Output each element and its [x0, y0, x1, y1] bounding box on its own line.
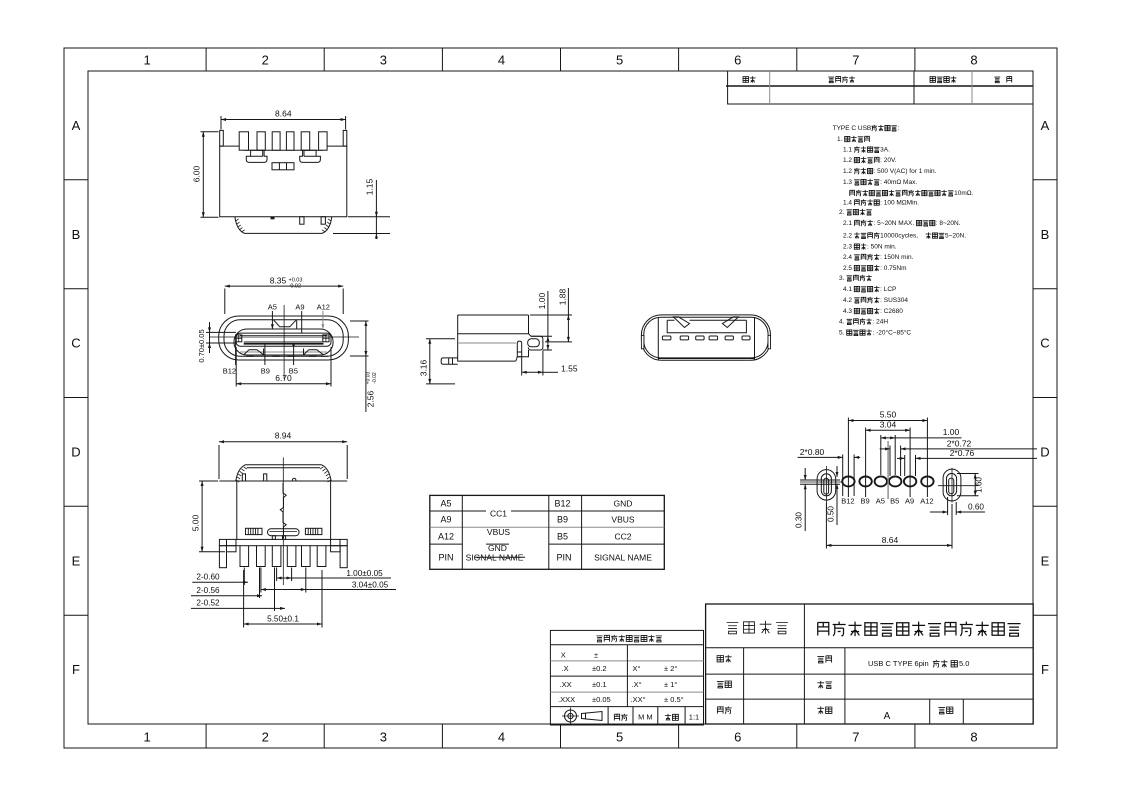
svg-text:E: E [1041, 553, 1050, 568]
units cell 单位 [614, 714, 619, 720]
svg-text:3: 3 [380, 53, 387, 68]
view3 mount tab with slot [516, 334, 543, 361]
svg-text:5.0: 5.0 [959, 659, 969, 668]
svg-text:5: 5 [616, 730, 623, 745]
svg-text:3A.: 3A. [880, 147, 890, 154]
svg-text:.X°: .X° [632, 680, 642, 689]
svg-text:3.16: 3.16 [419, 359, 429, 376]
svg-text:CC2: CC2 [614, 532, 631, 542]
svg-text:10mΩ.: 10mΩ. [954, 190, 974, 197]
view1 top tabs [239, 132, 248, 150]
svg-text:B9: B9 [261, 367, 270, 376]
svg-text:: 24H: : 24H [873, 319, 889, 326]
svg-text:4.: 4. [839, 319, 845, 326]
view2 left clip [236, 335, 242, 342]
pin table grid [430, 495, 665, 569]
view2 top notch [274, 320, 297, 329]
dimension 1.15 view1 [348, 216, 390, 218]
svg-text:3.: 3. [839, 275, 845, 282]
svg-text:SIGNAL NAME: SIGNAL NAME [594, 553, 652, 563]
outer border frame [64, 48, 1057, 748]
svg-text:±0.1: ±0.1 [592, 680, 607, 689]
svg-text:±0.05: ±0.05 [592, 695, 611, 704]
dimension 5.50±0.1 view4 [243, 570, 245, 628]
view6 center axis [887, 441, 889, 499]
inner border frame [88, 71, 1033, 724]
svg-text:A12: A12 [317, 303, 330, 312]
svg-text:±: ± [594, 651, 598, 660]
svg-text:±0.2: ±0.2 [592, 664, 607, 673]
svg-text:3: 3 [380, 730, 387, 745]
svg-text::: : [898, 125, 900, 132]
svg-text:VBUS: VBUS [487, 527, 510, 537]
svg-text:7: 7 [852, 53, 859, 68]
svg-text:4.3: 4.3 [843, 308, 852, 315]
dimension 5.50 view6 [847, 418, 849, 498]
svg-text:D: D [71, 444, 80, 459]
svg-text:A9: A9 [295, 303, 304, 312]
view1 boot corner hatching [236, 219, 332, 232]
title block grid [706, 604, 1034, 724]
dimension 3.04±0.05 view4 [260, 568, 262, 593]
view2 tongue [236, 333, 331, 346]
dimension 1.55 view3 [521, 357, 523, 376]
label 版本 [817, 706, 824, 714]
svg-text:2.5: 2.5 [843, 265, 852, 272]
svg-text:CC1: CC1 [490, 508, 507, 518]
dimension 6.70 view2 [235, 347, 237, 387]
view1 right latch [300, 150, 321, 162]
svg-text:1.4: 1.4 [843, 200, 852, 207]
zone ticks top/bottom [206, 48, 915, 748]
svg-text:1.1: 1.1 [843, 147, 852, 154]
svg-text:: -20°C~85°C: : -20°C~85°C [873, 329, 912, 337]
svg-text:B: B [72, 227, 81, 242]
label 审核 [717, 681, 724, 687]
svg-text:4: 4 [498, 730, 505, 745]
svg-text:4: 4 [498, 53, 505, 68]
view4 dome corner hatching [236, 467, 331, 482]
svg-text:: 0.75Nm: : 0.75Nm [880, 265, 906, 272]
view5 contact slots [662, 336, 750, 340]
svg-text:0.60: 0.60 [968, 503, 984, 512]
svg-text:5.50: 5.50 [880, 409, 897, 419]
svg-text:B12: B12 [223, 367, 236, 376]
svg-text:2: 2 [262, 730, 269, 745]
view5 rear outer stadium [641, 315, 770, 360]
svg-text:1:1: 1:1 [689, 713, 699, 722]
view1 boot legs [300, 217, 304, 225]
view2 tongue inner line [240, 335, 327, 337]
dimension 2*0.72 view6 [889, 446, 891, 477]
label 图号 [817, 681, 824, 689]
svg-text:TYPE C USB: TYPE C USB [833, 125, 872, 132]
company name 广东中连精密工业有限公司 [818, 622, 829, 635]
svg-text:: 100 MΩMin.: : 100 MΩMin. [880, 200, 919, 207]
revision table grid [726, 71, 1033, 104]
dimension 0.70 view2 [206, 331, 236, 333]
view3 side view body [458, 315, 529, 361]
svg-text:: 500 V(AC) for 1 min.: : 500 V(AC) for 1 min. [874, 168, 937, 175]
view4 base plate [219, 539, 347, 545]
view6 left pad centerlines [800, 481, 843, 483]
svg-text:4.2: 4.2 [843, 297, 852, 304]
svg-text:D: D [1040, 444, 1049, 459]
svg-text:.XX: .XX [560, 680, 572, 689]
svg-text:: 8~20N.: : 8~20N. [936, 220, 961, 227]
svg-text:1.00: 1.00 [943, 427, 960, 437]
svg-text:2*0.80: 2*0.80 [800, 447, 825, 457]
svg-text:8.64: 8.64 [882, 535, 899, 545]
svg-text:2.2: 2.2 [843, 233, 852, 240]
svg-text:2-0.52: 2-0.52 [196, 599, 220, 608]
view2 right clip [323, 335, 329, 342]
svg-text:5: 5 [616, 53, 623, 68]
label 核准 [717, 707, 723, 714]
view3 through-hole leg [517, 341, 521, 357]
svg-text:X°: X° [633, 664, 641, 673]
view5 insert body [658, 318, 754, 361]
svg-text:.XX°: .XX° [631, 695, 646, 704]
svg-text:1: 1 [143, 730, 150, 745]
tolerance table grid [550, 630, 703, 725]
dimension 2*0.80 view6 [842, 455, 844, 497]
view5 rear inner stadium [644, 317, 768, 358]
svg-text:8.35: 8.35 [270, 276, 287, 286]
svg-text:A12: A12 [920, 497, 933, 506]
svg-text:1.15: 1.15 [365, 178, 375, 195]
view2 horizontal centerline [210, 336, 360, 338]
view2 contact band [244, 341, 324, 343]
dimension 1.88 view3 [530, 314, 572, 316]
dimension 8.94 view4 [218, 445, 220, 479]
svg-text:2.1: 2.1 [843, 220, 852, 227]
scale cell 比例 [665, 714, 671, 721]
svg-text:+0.03: +0.03 [366, 371, 372, 384]
svg-text:A: A [884, 711, 891, 722]
label 设计 [717, 656, 723, 662]
view5 side notches [641, 335, 644, 348]
svg-text:5.50±0.1: 5.50±0.1 [267, 614, 299, 623]
svg-text:0.70±0.05: 0.70±0.05 [197, 329, 206, 362]
revision table header 日期 [994, 77, 1000, 83]
svg-text:8: 8 [970, 53, 977, 68]
svg-text:1.00: 1.00 [537, 292, 547, 309]
svg-text:0.30: 0.30 [795, 512, 804, 528]
svg-text:B12: B12 [554, 499, 570, 509]
view4 right terminal block [305, 528, 322, 534]
projection angle symbol [565, 710, 577, 722]
svg-text:1.00±0.05: 1.00±0.05 [346, 569, 383, 578]
view2 pocket stadium [234, 329, 333, 355]
view4 dome top tabs [242, 474, 245, 481]
revision table header 变更内容 [828, 77, 834, 83]
svg-text:X: X [561, 651, 566, 660]
title 公司名称 [727, 623, 739, 634]
svg-text:0.50: 0.50 [827, 506, 836, 522]
view2 second shell stadium [224, 320, 343, 356]
svg-text:C: C [71, 336, 80, 351]
svg-text:2.56: 2.56 [366, 390, 376, 407]
svg-text:B9: B9 [557, 515, 568, 525]
svg-text:: C2680: : C2680 [880, 308, 903, 315]
dimension 5.00 view4 [199, 480, 218, 482]
svg-text:: 5~20N MAX.: : 5~20N MAX. [874, 220, 915, 227]
svg-text:6: 6 [734, 53, 741, 68]
svg-text:6.00: 6.00 [192, 165, 202, 182]
svg-text:C: C [1040, 336, 1049, 351]
svg-text:B9: B9 [861, 497, 870, 506]
svg-text:A5: A5 [876, 497, 885, 506]
svg-text:8: 8 [970, 730, 977, 745]
svg-text:1.: 1. [837, 136, 843, 143]
view1 center block [272, 163, 294, 170]
svg-text:2: 2 [262, 53, 269, 68]
svg-text:10000cycles,: 10000cycles, [880, 233, 918, 240]
view4 shell dome [236, 465, 332, 482]
svg-text:1.88: 1.88 [558, 288, 568, 305]
svg-text:1.2: 1.2 [843, 157, 852, 164]
view1 left latch [246, 150, 267, 162]
svg-text:A12: A12 [438, 532, 454, 542]
dimension 2*0.76 view6 [904, 455, 906, 476]
svg-text:2*0.76: 2*0.76 [950, 448, 975, 458]
svg-text:A: A [1041, 118, 1050, 133]
svg-text:-0.02: -0.02 [372, 372, 378, 384]
svg-text:1.55: 1.55 [561, 364, 578, 374]
svg-text:.XXX: .XXX [558, 695, 575, 704]
svg-text:B12: B12 [841, 497, 854, 506]
svg-text:: LCP: : LCP [880, 286, 896, 293]
svg-text:-0.02: -0.02 [289, 284, 302, 290]
view5 left latch hook [667, 317, 746, 328]
dimension 8.64 view6 [825, 503, 827, 549]
view5 right latch hook [722, 317, 738, 328]
dimension 8.35 view2 [224, 289, 226, 315]
svg-text:3.04±0.05: 3.04±0.05 [352, 580, 389, 589]
view2 under-tongue line [240, 351, 327, 353]
view4 center contact boss [268, 529, 300, 536]
svg-text:3.04: 3.04 [880, 420, 897, 430]
view4 body [219, 481, 347, 539]
svg-text:6: 6 [734, 730, 741, 745]
svg-text:1.2: 1.2 [843, 168, 852, 175]
dimension 2.56 view2 [350, 320, 369, 322]
dimension 0.30 view6 [800, 479, 840, 481]
svg-text:8.94: 8.94 [275, 431, 292, 441]
view4 left terminal block [246, 528, 263, 534]
dimension 1.00 view6 [880, 435, 882, 475]
svg-text:2.: 2. [839, 209, 845, 216]
view4 parting seam [280, 483, 286, 538]
view2 outer shell stadium [219, 316, 349, 360]
dimension 1.00±0.05 view4 [276, 568, 278, 582]
svg-text:PIN: PIN [438, 553, 453, 563]
svg-text:B: B [1041, 227, 1050, 242]
revision table header 版本 [743, 77, 748, 83]
svg-text:8.64: 8.64 [275, 109, 292, 119]
view4 centerline [282, 457, 284, 585]
view1 top view outline [220, 146, 347, 217]
svg-text:PIN: PIN [556, 553, 571, 563]
dimension 3.16 view3 [426, 338, 455, 340]
view1 boot below body [235, 217, 332, 234]
dimension 0.50 view6 [836, 466, 838, 477]
svg-text:A9: A9 [440, 515, 451, 525]
revision table header 工程确认 [930, 77, 935, 83]
view5 pocket region [667, 320, 746, 332]
zone ticks left/right [64, 180, 1057, 615]
dimension 3.04 view6 [865, 428, 867, 498]
svg-text:2-0.60: 2-0.60 [196, 573, 220, 582]
view2 bottom shell dents [246, 355, 328, 357]
label 页码 [938, 707, 945, 713]
svg-text:1: 1 [143, 53, 150, 68]
svg-text:.X: .X [562, 664, 569, 673]
view6 right pad centerlines [938, 485, 978, 487]
svg-text:USB C TYPE 6pin: USB C TYPE 6pin [868, 659, 929, 668]
svg-text:± 2°: ± 2° [664, 664, 677, 673]
svg-text:2.3: 2.3 [843, 244, 852, 251]
dimension 6.00 view1 [201, 131, 219, 133]
svg-text:B5: B5 [557, 532, 568, 542]
svg-text:1.3: 1.3 [843, 179, 852, 186]
dimension 0.60 view6 [947, 497, 949, 515]
svg-text:± 1°: ± 1° [664, 680, 677, 689]
svg-text:A5: A5 [440, 499, 451, 509]
svg-text:F: F [1041, 662, 1049, 677]
svg-text:: 40mΩ Max.: : 40mΩ Max. [880, 179, 917, 186]
svg-text:1.60: 1.60 [975, 477, 984, 493]
svg-text:2-0.56: 2-0.56 [196, 586, 220, 595]
view2 vertical centerline [283, 305, 285, 379]
view3 tab oval hole [528, 339, 540, 347]
view1 edge posts [220, 130, 224, 146]
svg-text:E: E [72, 553, 81, 568]
svg-text:: 50N min.: : 50N min. [867, 244, 897, 251]
svg-text:: 20V.: : 20V. [880, 157, 897, 164]
svg-text:GND: GND [614, 499, 633, 509]
svg-text:M M: M M [638, 713, 653, 722]
svg-text:: SUS304: : SUS304 [880, 297, 908, 304]
tolerance table header 一般公差加工参考表 [596, 636, 602, 642]
dimension 1.60 view6 [957, 473, 979, 475]
view6 right mount pad [943, 469, 961, 501]
svg-text:: 150N min.: : 150N min. [880, 254, 913, 261]
view3 left smt pin [441, 358, 458, 364]
svg-text:5~20N.: 5~20N. [945, 233, 966, 240]
svg-text:2.4: 2.4 [843, 254, 852, 261]
view2 bottom bumps [244, 349, 264, 355]
svg-text:5.: 5. [839, 330, 845, 337]
svg-text:F: F [72, 662, 80, 677]
svg-text:VBUS: VBUS [611, 515, 634, 525]
svg-text:4.1: 4.1 [843, 286, 852, 293]
svg-text:5.00: 5.00 [191, 514, 201, 531]
svg-text:A9: A9 [905, 497, 914, 506]
svg-text:± 0.5°: ± 0.5° [664, 695, 684, 704]
view6 solder pads row [842, 476, 933, 486]
dimension 1.00 view3 [531, 335, 552, 337]
svg-text:A5: A5 [268, 303, 277, 312]
view6 left mount pad [817, 470, 836, 501]
dimension 8.64 view1 [220, 116, 222, 130]
view4 outer legs [219, 546, 226, 568]
label 品名 [817, 656, 824, 662]
svg-text:7: 7 [852, 730, 859, 745]
view4 pins [240, 546, 326, 567]
svg-text:6.70: 6.70 [275, 373, 292, 383]
svg-text:A: A [72, 118, 81, 133]
svg-text:B5: B5 [890, 497, 899, 506]
